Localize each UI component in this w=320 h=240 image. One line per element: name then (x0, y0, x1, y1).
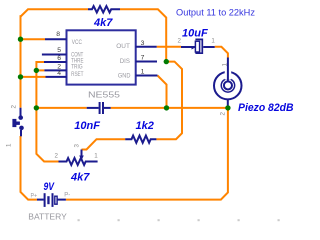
capacitor C2 10nF (87, 102, 111, 114)
wire pin4 RSET (21, 76, 46, 78)
wire pin8 VCC (21, 38, 46, 40)
svg-text:9V: 9V (44, 181, 56, 193)
piezo sounder outer circle (214, 72, 242, 100)
node TRIG junction (34, 68, 39, 73)
node RSET/pin4 (18, 74, 23, 79)
svg-text:2: 2 (178, 37, 182, 44)
svg-text:6: 6 (57, 55, 61, 62)
svg-text:1: 1 (221, 63, 228, 67)
wire top rail left segment (21, 9, 89, 16)
junction dots (18, 37, 231, 111)
wire R2 to pot wiper (82, 139, 126, 149)
IC pin names (71, 39, 131, 80)
svg-text:3: 3 (74, 144, 81, 148)
wire piezo bottom down and bottom rail to battery (66, 108, 228, 200)
IC pin numbers (56, 31, 144, 77)
C1 polarity arrow (192, 46, 195, 50)
svg-text:1k2: 1k2 (136, 120, 154, 132)
svg-text:1: 1 (211, 37, 215, 44)
piezo inner ring and pins (224, 58, 232, 108)
svg-text:DIS: DIS (120, 58, 130, 65)
svg-text:1: 1 (6, 143, 13, 147)
node C2 rail junction (34, 105, 39, 110)
pot wiper arrow (79, 156, 84, 161)
svg-text:4k7: 4k7 (70, 171, 90, 183)
wire THRE elbow and vertical down to pot (36, 62, 58, 162)
wire left rail lower to battery (21, 136, 38, 200)
svg-text:TRIG: TRIG (71, 64, 83, 71)
wire left rail upper (20, 15, 22, 108)
svg-text:P-: P- (64, 192, 70, 199)
wire TRIG to junction (36, 69, 44, 71)
capacitor C1 10uF electrolytic (181, 39, 215, 53)
svg-text:8: 8 (56, 31, 60, 38)
wire top rail right segment down to DIS junction (120, 9, 166, 61)
svg-text:1: 1 (94, 153, 98, 160)
node DIS junction (164, 59, 169, 64)
svg-text:Output 11 to 22kHz: Output 11 to 22kHz (176, 7, 256, 17)
svg-text:RSET: RSET (71, 71, 84, 78)
IC pin leads (42, 39, 158, 77)
potentiometer R3 4k7 (59, 150, 98, 166)
svg-text:2: 2 (11, 105, 18, 109)
piezo middle circle (221, 79, 234, 92)
svg-text:BATTERY: BATTERY (28, 212, 67, 222)
wire C1 to piezo top (215, 47, 228, 58)
resistor R2 1k2 (125, 136, 156, 143)
svg-text:2: 2 (55, 153, 59, 160)
svg-text:7: 7 (141, 55, 145, 62)
svg-text:4: 4 (57, 70, 61, 77)
node VCC/pin8 (18, 37, 23, 42)
svg-text:2: 2 (220, 112, 227, 116)
svg-text:4k7: 4k7 (93, 17, 113, 29)
wire GND pin down to rail (158, 76, 167, 108)
svg-text:5: 5 (57, 47, 61, 54)
svg-text:NE555: NE555 (88, 89, 120, 99)
wire DIS junction down to R2 (156, 62, 182, 140)
svg-text:P+: P+ (31, 193, 38, 200)
IC U1 NE555 box (67, 30, 136, 84)
piezo spiral gap (225, 69, 232, 79)
svg-text:1: 1 (141, 69, 145, 76)
battery B1 9V (37, 193, 66, 207)
node GND rail junction (164, 105, 169, 110)
resistor R1 4k7 top (88, 6, 120, 12)
wire ground rail left of C2 (36, 107, 86, 109)
svg-text:OUT: OUT (116, 43, 130, 50)
svg-text:10uF: 10uF (182, 28, 208, 40)
node piezo rail junction (225, 105, 230, 110)
svg-text:VCC: VCC (72, 39, 83, 46)
wire OUT to C1 (157, 46, 181, 48)
svg-text:3: 3 (141, 40, 145, 47)
svg-text:10nF: 10nF (74, 120, 100, 132)
svg-text:GND: GND (118, 72, 131, 79)
wire ground rail right of C2 to piezo (111, 107, 228, 109)
grid tick marks bottom (78, 219, 280, 221)
pushbutton switch SW1 (20, 108, 23, 137)
svg-text:Piezo 82dB: Piezo 82dB (238, 102, 294, 114)
